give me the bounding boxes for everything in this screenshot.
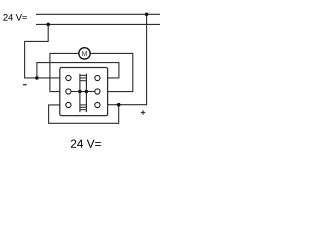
- polarity minus sign: [23, 84, 27, 85]
- junction dot slider left bar: [78, 90, 82, 94]
- slider bar right: [85, 74, 87, 113]
- switch S1 body: [60, 68, 108, 116]
- wire motor left to middle-left terminal: [50, 53, 79, 91]
- junction dot left branch: [35, 76, 39, 80]
- polarity plus sign: [141, 110, 145, 114]
- node +24V rail top: [36, 13, 160, 15]
- junction dot rail1 right: [145, 13, 149, 17]
- motor M1 label: [82, 51, 87, 56]
- terminal circle bottom-left: [66, 102, 71, 107]
- node 0V rail second: [36, 23, 160, 25]
- wire bottom-right terminal to +rail drop: [108, 14, 147, 104]
- slider bar left: [79, 74, 81, 113]
- label 24V bottom: [71, 140, 101, 148]
- wire branch over block to top-right terminal: [37, 63, 119, 78]
- terminal circle bottom-right: [95, 102, 100, 107]
- wire from rail2 down-left to switch top-left terminal: [25, 24, 60, 78]
- slider hatch rungs top: [80, 75, 87, 80]
- junction dot rail2: [46, 23, 50, 27]
- label 24V top left: [3, 14, 27, 21]
- terminal circle mid-right: [95, 89, 100, 94]
- terminal circle mid-left: [66, 89, 71, 94]
- junction dot slider right bar: [85, 90, 89, 94]
- slider hatch rungs bottom: [80, 105, 87, 110]
- terminal circle top-right: [95, 75, 100, 80]
- motor M1 circle: [79, 48, 90, 59]
- junction dot bottom right: [117, 103, 121, 107]
- wire bottom-left terminal under block: [49, 105, 119, 124]
- terminal circle top-left: [66, 75, 71, 80]
- wire motor right to middle-right terminal: [90, 53, 132, 91]
- wire middle row inside switch: [71, 91, 95, 93]
